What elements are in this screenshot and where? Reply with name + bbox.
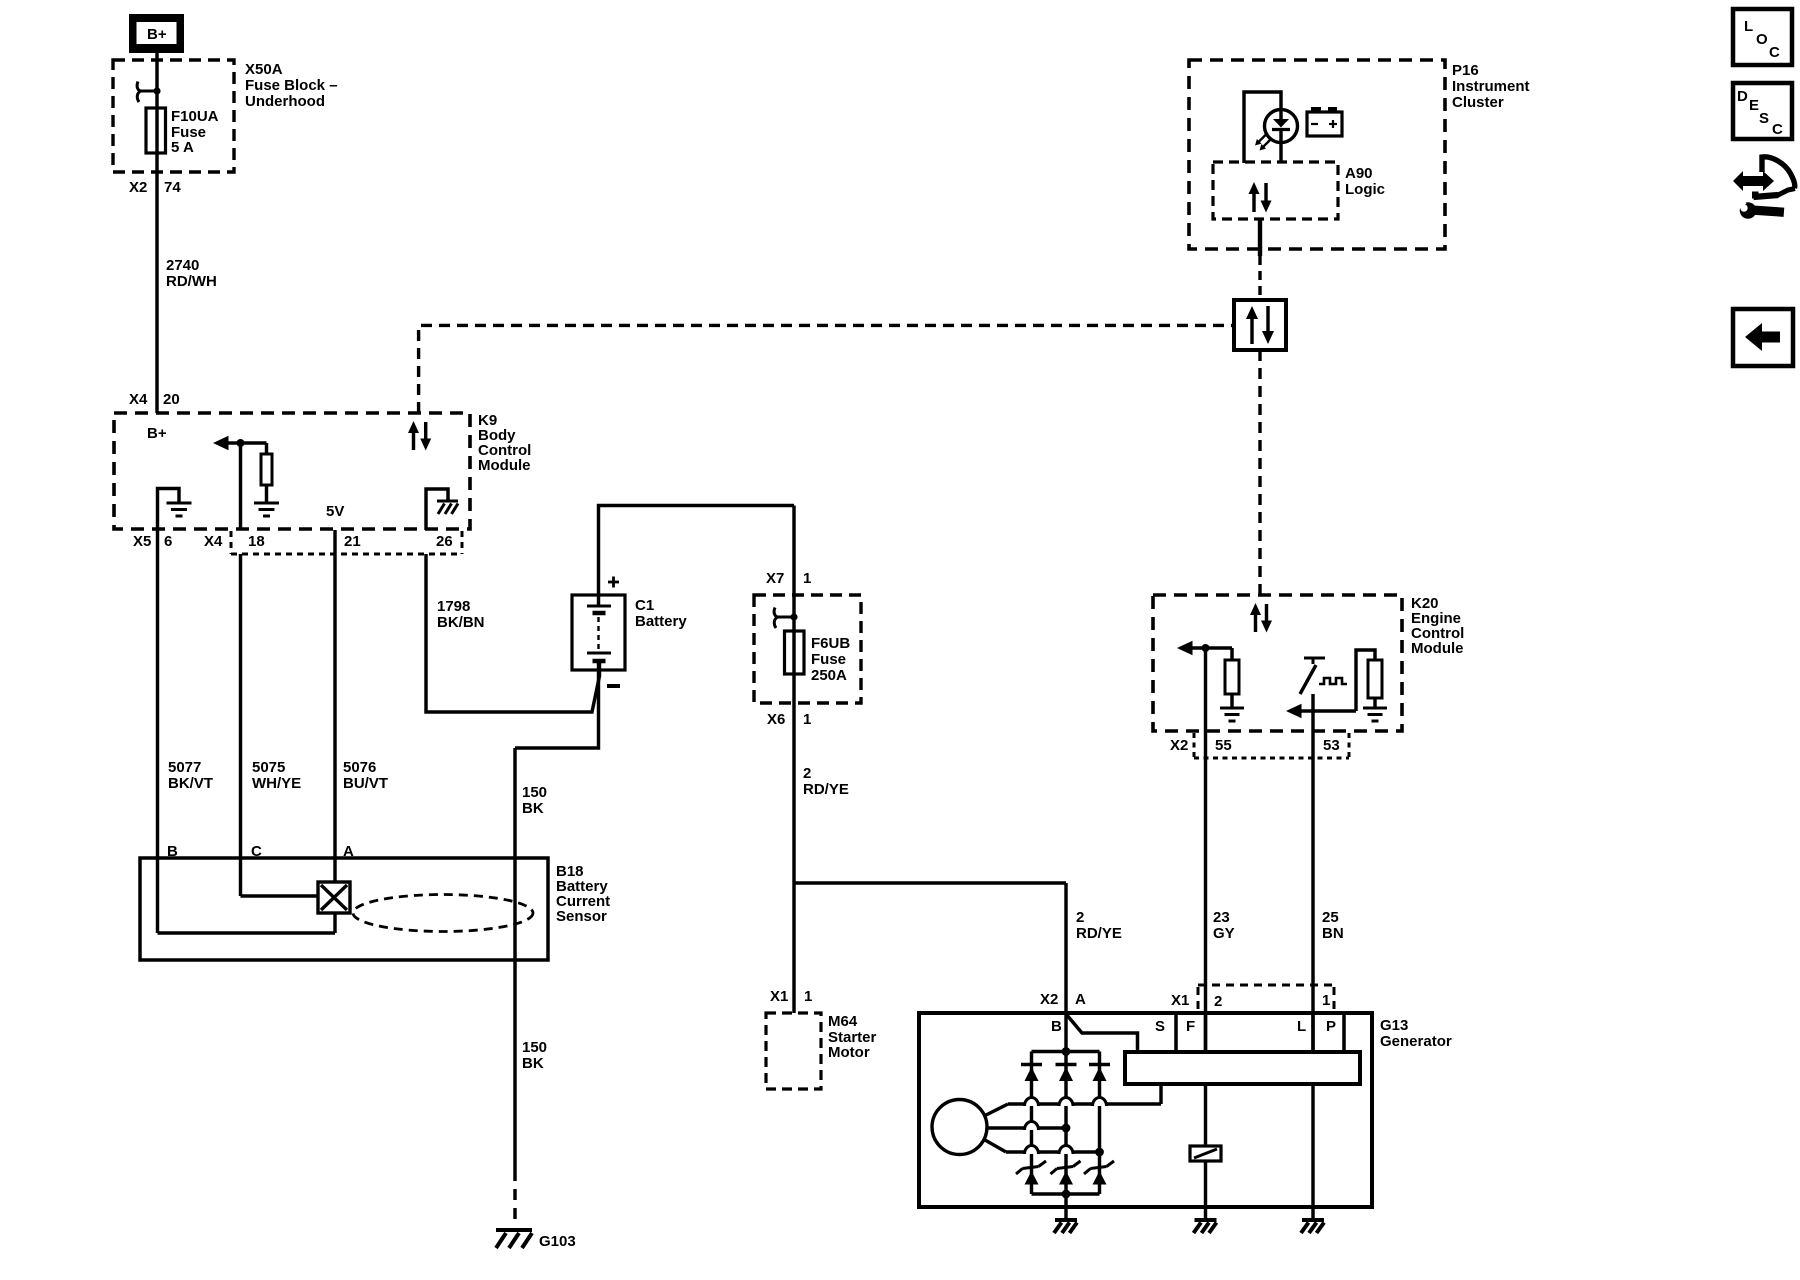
node B+ power label: [129, 14, 184, 53]
svg-text:RD/YE: RD/YE: [1076, 925, 1122, 942]
node B+ inside BCM: [147, 425, 167, 442]
svg-text:A90: A90: [1345, 165, 1373, 182]
generator terminal box dividers: [1176, 1013, 1344, 1052]
svg-text:C: C: [1772, 121, 1783, 138]
fuse F10UA 5A: [146, 108, 166, 153]
svg-text:X1: X1: [770, 988, 788, 1005]
resistor inside BCM: [261, 443, 272, 503]
svg-text:18: 18: [248, 533, 265, 550]
svg-text:L: L: [1297, 1018, 1306, 1035]
svg-text:C1: C1: [635, 597, 654, 614]
wire serial data dashed from BCM to inline connector: [419, 325, 1234, 413]
svg-text:Instrument: Instrument: [1452, 78, 1530, 95]
icon harness routing: [1733, 157, 1795, 219]
fuse block X50D Battery dashed box: [754, 595, 861, 703]
svg-text:G103: G103: [539, 1233, 576, 1250]
inline connector box with arrows: [1234, 300, 1286, 350]
svg-text:Battery: Battery: [635, 613, 687, 630]
label X50A Fuse Block Underhood: [245, 61, 338, 110]
wire 150 BK through B18: [513, 858, 516, 960]
pins X2 74: [129, 179, 181, 196]
A90 up/down arrows: [1249, 182, 1272, 213]
connector X4 dashed sub-box: [231, 531, 462, 554]
svg-text:Fuse Block –: Fuse Block –: [245, 77, 338, 94]
pins B C A of B18: [167, 843, 354, 860]
svg-text:2: 2: [1076, 909, 1084, 926]
svg-text:25: 25: [1322, 909, 1339, 926]
wire 5075 WH/YE (pin 18 to B18 C): [239, 554, 242, 896]
svg-text:X2: X2: [129, 179, 147, 196]
svg-text:74: 74: [164, 179, 181, 196]
rotor circle: [932, 1100, 987, 1155]
label 25 BN: [1322, 909, 1344, 942]
label G103: [539, 1233, 576, 1250]
PWM square wave symbol: [1319, 678, 1347, 684]
pin letters B S F L P: [1051, 1018, 1336, 1035]
svg-text:X1: X1: [1171, 992, 1189, 1009]
wire 5077 BK/VT (pin 6 to B18 B): [156, 530, 159, 858]
svg-text:5076: 5076: [343, 759, 376, 776]
pins X2 A of generator: [1040, 991, 1086, 1008]
svg-text:A: A: [1075, 991, 1086, 1008]
svg-text:BK: BK: [522, 1055, 544, 1072]
stator winding bottom phase: [985, 1140, 1100, 1152]
wire battery positive to fuse block X50D: [599, 506, 795, 596]
svg-text:5077: 5077: [168, 759, 201, 776]
svg-text:RD/YE: RD/YE: [803, 781, 849, 798]
ECM serial data up/down arrows: [1250, 603, 1272, 633]
wire 1798 BK/BN (BCM 26 to battery negative): [426, 554, 600, 712]
svg-text:150: 150: [522, 1039, 547, 1056]
fuse F6UB 250A: [785, 631, 805, 674]
label M64 Starter Motor: [828, 1013, 877, 1061]
wire BCM pin X5-6 to internal ground: [158, 489, 180, 531]
wire to starter motor M64: [792, 883, 795, 1013]
ground (earth) for pin 6 inside BCM: [167, 503, 192, 516]
svg-text:X7: X7: [766, 570, 784, 587]
icon back arrow button: [1733, 309, 1793, 366]
wire BCM pin 26 to internal chassis ground: [426, 489, 448, 530]
svg-text:250A: 250A: [811, 667, 847, 684]
label 23 GY: [1213, 909, 1235, 942]
battery telltale icon: [1307, 107, 1342, 136]
svg-text:2: 2: [803, 765, 811, 782]
svg-text:WH/YE: WH/YE: [252, 775, 301, 792]
wire 2 RD/YE vertical through X50D: [792, 506, 795, 884]
pins X5 6 X4 18 21 26: [133, 533, 453, 550]
wire 25 BN (ECM 53 to generator P): [1311, 694, 1314, 1052]
svg-text:B+: B+: [147, 425, 167, 442]
label 150 BK lower: [522, 1039, 547, 1072]
svg-text:X5: X5: [133, 533, 151, 550]
svg-text:1: 1: [804, 988, 812, 1005]
svg-text:C: C: [1769, 44, 1780, 61]
stator winding top phase: [986, 1084, 1161, 1115]
wire label 2740 RD/WH: [166, 257, 217, 290]
svg-text:GY: GY: [1213, 925, 1235, 942]
svg-text:1798: 1798: [437, 598, 470, 615]
module K9 Body Control Module dashed box: [114, 413, 470, 529]
rectifier bridge verticals: [1032, 1013, 1100, 1194]
pins X7 1: [766, 570, 811, 587]
svg-text:B+: B+: [147, 26, 167, 43]
svg-text:E: E: [1749, 97, 1759, 114]
component M64 Starter Motor dashed box: [766, 1013, 821, 1089]
wire B terminal to regulator: [1066, 1014, 1138, 1052]
svg-text:P: P: [1326, 1018, 1336, 1035]
svg-text:1: 1: [803, 711, 811, 728]
B18 internal wiring: [158, 858, 336, 933]
wire rectifier to chassis ground: [1064, 1194, 1067, 1219]
LED feed loop wire: [1244, 92, 1281, 163]
wire 150 BK lower: [513, 960, 516, 1170]
wire 23 GY (ECM 55 to generator F): [1204, 648, 1207, 1052]
svg-text:Motor: Motor: [828, 1044, 870, 1061]
battery - sign: [607, 684, 620, 688]
LED diode symbol: [1272, 108, 1290, 163]
ECM switch contact pin 53: [1300, 658, 1325, 694]
battery + sign: [608, 577, 619, 588]
labels 5077 BK/VT 5075 WH/YE 5076 BU/VT: [168, 759, 388, 792]
ground G103 chassis symbol: [496, 1230, 532, 1248]
svg-text:X4: X4: [129, 391, 148, 408]
label K9 Body Control Module: [478, 412, 531, 474]
svg-text:BU/VT: BU/VT: [343, 775, 388, 792]
charge indicator LED circle: [1265, 110, 1298, 143]
pins X6 1: [767, 711, 811, 728]
svg-text:F: F: [1186, 1018, 1195, 1035]
svg-text:6: 6: [164, 533, 172, 550]
ECM resistor left: [1225, 648, 1239, 708]
label G13 Generator: [1380, 1017, 1452, 1050]
wire 150 BK upper: [513, 748, 516, 858]
connector X1 of generator dashed marks: [1198, 985, 1334, 1010]
svg-text:BK: BK: [522, 800, 544, 817]
wire 5076 BU/VT (pin 21 to B18 A): [333, 530, 336, 882]
winding junction dots: [1062, 1124, 1104, 1157]
wire dashed connector to cluster: [1258, 256, 1261, 300]
chassis ground inside BCM: [437, 501, 458, 514]
svg-text:BK/BN: BK/BN: [437, 614, 485, 631]
label P16 Instrument Cluster: [1452, 62, 1530, 111]
connector X2 dashed sub-box: [1194, 733, 1349, 758]
svg-text:2740: 2740: [166, 257, 199, 274]
indicator lamp branch: [1190, 1084, 1221, 1219]
svg-text:26: 26: [436, 533, 453, 550]
svg-text:X50A: X50A: [245, 61, 283, 78]
svg-text:Generator: Generator: [1380, 1033, 1452, 1050]
svg-text:Sensor: Sensor: [556, 908, 607, 925]
voltage regulator block: [1125, 1052, 1360, 1084]
svg-text:23: 23: [1213, 909, 1230, 926]
label K20 Engine Control Module: [1411, 595, 1464, 657]
pins X4 20: [129, 391, 180, 408]
wire A90 output solid stub: [1258, 219, 1262, 256]
svg-text:Logic: Logic: [1345, 181, 1385, 198]
fuse block X50A Underhood dashed box: [113, 60, 234, 172]
bottom avalanche diodes: [1016, 1161, 1114, 1185]
label B18 Battery Current Sensor: [556, 863, 610, 925]
wire B+ to BCM pin X4-20 (2740 RD/WH): [155, 53, 158, 413]
rectifier bottom bus: [1032, 1190, 1100, 1199]
svg-text:O: O: [1756, 31, 1768, 48]
svg-text:2: 2: [1214, 993, 1222, 1010]
ground (earth) below ECM left resistor: [1220, 708, 1244, 721]
pins X1 2 1 of generator: [1171, 992, 1330, 1010]
component G13 Generator box: [919, 1013, 1372, 1207]
label 150 BK upper: [522, 784, 547, 817]
svg-text:B: B: [1051, 1018, 1062, 1035]
ground (earth) below BCM resistor: [254, 503, 279, 516]
svg-text:150: 150: [522, 784, 547, 801]
svg-text:53: 53: [1323, 737, 1340, 754]
node 5V: [326, 503, 344, 520]
chassis ground below generator B: [1054, 1220, 1077, 1233]
icon LOC button: [1733, 9, 1792, 65]
svg-text:RD/WH: RD/WH: [166, 273, 217, 290]
terminal clip in X50D: [774, 608, 797, 629]
svg-text:F10UA: F10UA: [171, 108, 219, 125]
svg-text:Underhood: Underhood: [245, 93, 325, 110]
label C1 Battery: [635, 597, 687, 630]
svg-text:21: 21: [344, 533, 361, 550]
dashed ellipse around sensed conductor: [353, 895, 533, 932]
ECM internal arrow pin 53 net: [1286, 704, 1356, 718]
module K20 Engine Control Module dashed box: [1153, 595, 1402, 731]
pins X1 1 of M64: [770, 988, 812, 1005]
svg-text:G13: G13: [1380, 1017, 1408, 1034]
label 2 RD/YE upper: [803, 765, 849, 798]
ground (earth) below ECM right resistor: [1363, 708, 1387, 721]
wire battery negative to 150 BK: [515, 670, 599, 748]
chassis ground below P: [1301, 1220, 1324, 1233]
label A90 Logic: [1345, 165, 1385, 198]
wire dashed connector to ECM: [1258, 350, 1261, 595]
ECM internal arrow pin 55: [1177, 641, 1232, 655]
svg-text:Fuse: Fuse: [811, 651, 846, 668]
BCM internal B+ feed arrow: [213, 436, 267, 450]
svg-text:Module: Module: [1411, 640, 1464, 657]
svg-text:P16: P16: [1452, 62, 1479, 79]
wire junction to generator A: [794, 881, 1066, 884]
module P16 Instrument Cluster dashed box: [1189, 60, 1445, 249]
svg-text:5 A: 5 A: [171, 139, 194, 156]
svg-text:L: L: [1744, 18, 1753, 35]
svg-text:5V: 5V: [326, 503, 344, 520]
LED light arrows: [1255, 135, 1271, 151]
svg-text:20: 20: [163, 391, 180, 408]
svg-text:Cluster: Cluster: [1452, 94, 1504, 111]
top diodes: [1021, 1065, 1110, 1082]
terminal clip in X50A: [137, 82, 160, 103]
label 1798 BK/BN: [437, 598, 485, 631]
svg-text:1: 1: [1322, 992, 1330, 1009]
wire P terminal to chassis ground: [1311, 1084, 1314, 1219]
svg-text:X2: X2: [1170, 737, 1188, 754]
svg-text:M64: M64: [828, 1013, 858, 1030]
battery C1: [572, 595, 625, 670]
svg-text:X2: X2: [1040, 991, 1058, 1008]
svg-text:55: 55: [1215, 737, 1232, 754]
pins X2 55 53: [1170, 737, 1340, 754]
stator winding middle phase: [987, 1126, 1067, 1129]
winding hops over branches: [1025, 1098, 1107, 1155]
BCM serial data up/down arrows: [408, 421, 431, 451]
label F10UA Fuse 5A: [171, 108, 219, 156]
sensor element (box with X): [318, 882, 350, 913]
icon DESC button: [1733, 83, 1792, 139]
wire BCM pin 18 from junction: [239, 443, 242, 530]
svg-text:S: S: [1155, 1018, 1165, 1035]
label 2 RD/YE right: [1076, 909, 1122, 942]
ECM resistor right: [1356, 650, 1382, 711]
svg-text:BN: BN: [1322, 925, 1344, 942]
label F6UB Fuse 250A: [811, 635, 850, 684]
svg-text:X6: X6: [767, 711, 785, 728]
component B18 Battery Current Sensor box: [140, 858, 548, 960]
svg-text:X4: X4: [204, 533, 223, 550]
svg-text:S: S: [1759, 110, 1769, 127]
chassis ground below lamp: [1194, 1220, 1217, 1233]
rectifier top bus: [1032, 1047, 1100, 1056]
svg-text:1: 1: [803, 570, 811, 587]
logic block A90 dashed box: [1213, 162, 1338, 219]
wire 2 RD/YE to generator X2-A: [1064, 883, 1067, 1013]
svg-text:F6UB: F6UB: [811, 635, 850, 652]
svg-text:D: D: [1737, 88, 1748, 105]
svg-text:Module: Module: [478, 457, 531, 474]
svg-text:5075: 5075: [252, 759, 285, 776]
svg-text:BK/VT: BK/VT: [168, 775, 213, 792]
wire 150 BK dashed tail: [513, 1170, 516, 1226]
